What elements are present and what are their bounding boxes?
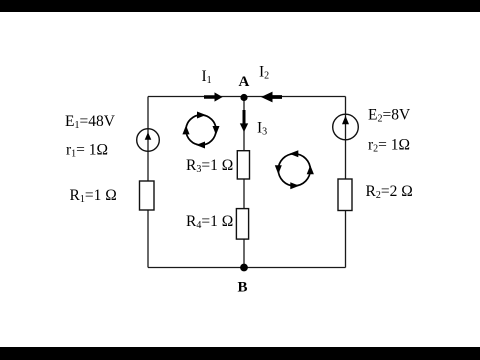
svg-text:R2=2 Ω: R2=2 Ω: [366, 183, 413, 201]
resistor R1: [140, 181, 155, 210]
node B: [240, 264, 248, 272]
source E1 arrow: [145, 132, 152, 140]
top letterbox bar: [0, 0, 480, 12]
mesh loop 1 (clockwise): [182, 112, 219, 149]
wire bottom: B-row horizontal: [148, 267, 346, 269]
source E2 circle: [333, 114, 359, 140]
svg-text:E2=8V: E2=8V: [368, 107, 411, 125]
current arrow I2: [261, 92, 282, 103]
wire top: A-row horizontal: [148, 96, 346, 98]
svg-text:A: A: [239, 74, 250, 90]
node A: [240, 94, 247, 101]
resistor R2: [338, 179, 352, 211]
svg-text:B: B: [238, 280, 248, 296]
svg-text:E1=48V: E1=48V: [65, 113, 116, 131]
current arrow I3: [240, 110, 248, 132]
resistor R4: [236, 209, 248, 240]
source E2 arrow: [342, 116, 349, 124]
wire middle branch: [243, 97, 245, 268]
resistor R3: [237, 151, 249, 179]
current arrow I1: [204, 92, 223, 101]
svg-text:R1=1 Ω: R1=1 Ω: [70, 187, 117, 205]
svg-text:R4=1 Ω: R4=1 Ω: [186, 213, 233, 231]
bottom letterbox bar: [0, 347, 480, 360]
source E1 circle: [137, 129, 160, 152]
mesh loop 2 (counter-clockwise): [275, 150, 314, 189]
wire right branch: [345, 97, 347, 268]
wire left branch: [147, 97, 149, 268]
svg-text:R3=1 Ω: R3=1 Ω: [186, 157, 233, 175]
